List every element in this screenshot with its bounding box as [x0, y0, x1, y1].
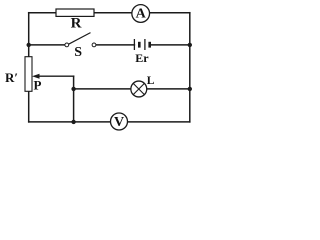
- battery cell plate short 2: [148, 42, 151, 48]
- wire top (node TL to ammeter): [29, 12, 132, 14]
- wire lamp row: [74, 88, 190, 90]
- svg-text:S: S: [74, 45, 82, 60]
- wire slider arrow row: [39, 75, 74, 77]
- svg-text:A: A: [136, 7, 147, 22]
- voltmeter V: [111, 113, 128, 130]
- wire right vertical: [189, 13, 191, 122]
- lamp L: [131, 81, 147, 97]
- junction node left-switch: [27, 43, 31, 47]
- junction node slider-lamp: [71, 87, 75, 91]
- resistor R: [56, 9, 94, 16]
- junction node lamp-right: [188, 87, 192, 91]
- wire bottom: [29, 121, 190, 123]
- junction node slider-bottom: [71, 120, 75, 124]
- battery cell plate short 1: [138, 42, 141, 48]
- svg-text:V: V: [114, 115, 124, 130]
- rheostat R' body: [25, 57, 32, 92]
- svg-text:P: P: [34, 78, 42, 93]
- svg-text:R: R: [71, 15, 82, 31]
- wire left vertical: [28, 13, 30, 122]
- svg-text:R′: R′: [5, 70, 18, 85]
- svg-text:Er: Er: [135, 51, 149, 65]
- switch S: [65, 33, 96, 47]
- wire switch row left: [29, 44, 65, 46]
- wire mid vertical (slider to bottom): [73, 76, 75, 122]
- wire top-right (ammeter to node TR): [150, 12, 190, 14]
- wire battery to node right: [150, 44, 190, 46]
- rheostat slider arrow P: [32, 74, 40, 79]
- junction node battery-right: [188, 43, 192, 47]
- ammeter A: [132, 5, 150, 23]
- battery cell plate long 2: [144, 39, 146, 50]
- svg-text:L: L: [147, 75, 155, 87]
- wire switch to battery: [96, 44, 134, 46]
- battery cell plate long 1: [133, 39, 135, 50]
